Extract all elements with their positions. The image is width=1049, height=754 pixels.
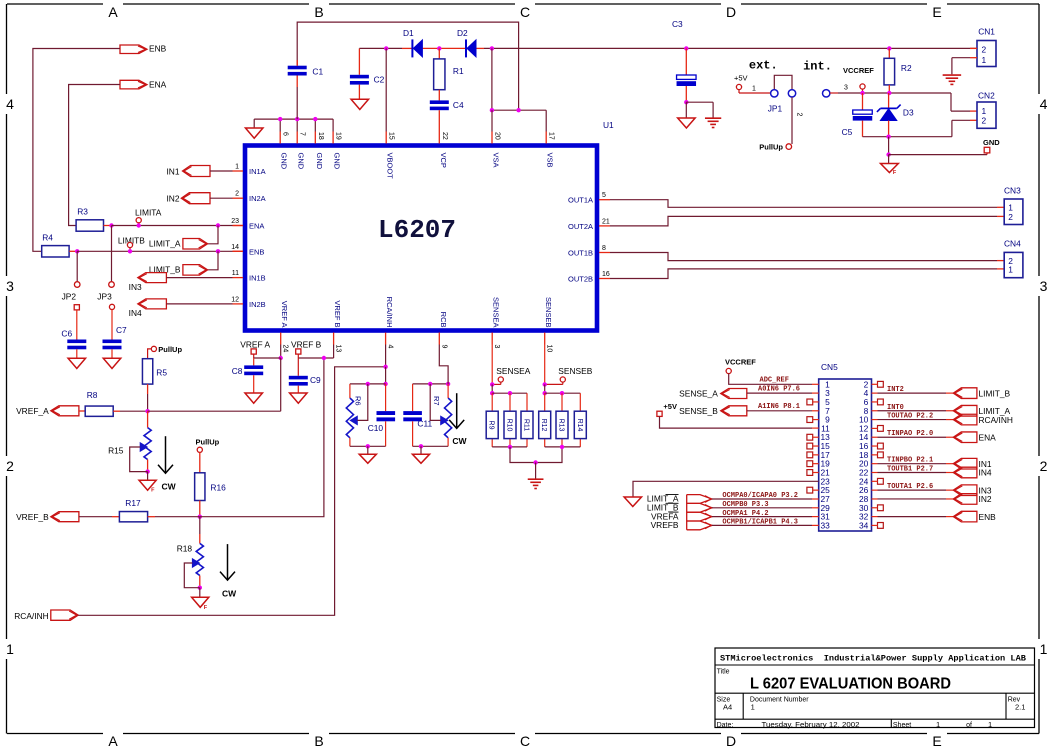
svg-text:ENB: ENB	[249, 247, 264, 256]
svg-text:LIMIT_B: LIMIT_B	[979, 388, 1011, 398]
svg-text:IN4: IN4	[979, 468, 992, 478]
svg-text:IN1A: IN1A	[249, 167, 266, 176]
svg-text:CW: CW	[162, 482, 177, 492]
svg-text:RCA/INH: RCA/INH	[14, 611, 48, 621]
svg-text:B: B	[314, 4, 323, 20]
svg-text:3: 3	[1040, 278, 1048, 294]
svg-text:VCCREF: VCCREF	[843, 66, 874, 75]
svg-text:2: 2	[6, 458, 14, 474]
svg-text:int.: int.	[803, 60, 832, 74]
svg-text:CN5: CN5	[821, 362, 838, 372]
svg-text:C1: C1	[312, 67, 323, 77]
svg-text:IN1B: IN1B	[249, 274, 266, 283]
svg-text:OCMPB0 P3.3: OCMPB0 P3.3	[722, 501, 768, 509]
svg-text:VREF_A: VREF_A	[16, 406, 49, 416]
svg-text:INT2: INT2	[887, 386, 904, 394]
svg-text:23: 23	[231, 218, 239, 225]
svg-text:16: 16	[602, 271, 610, 278]
svg-text:OUT2B: OUT2B	[568, 275, 593, 284]
svg-text:JP3: JP3	[97, 292, 112, 302]
svg-text:A4: A4	[723, 703, 732, 712]
svg-text:2: 2	[1008, 212, 1013, 222]
svg-text:R1: R1	[453, 66, 464, 76]
svg-text:CW: CW	[452, 436, 467, 446]
svg-text:VSA: VSA	[492, 153, 501, 168]
svg-text:R14: R14	[576, 419, 583, 432]
svg-text:OUT1A: OUT1A	[568, 196, 593, 205]
svg-text:2: 2	[982, 116, 987, 126]
svg-text:VCCREF: VCCREF	[725, 358, 756, 367]
svg-text:OCMPA1 P4.2: OCMPA1 P4.2	[722, 510, 768, 518]
svg-text:1: 1	[982, 106, 987, 116]
svg-text:Tuesday, February 12, 2002: Tuesday, February 12, 2002	[762, 720, 860, 729]
svg-text:34: 34	[859, 520, 869, 530]
svg-text:IN2: IN2	[166, 194, 179, 204]
svg-text:Document Number: Document Number	[750, 697, 809, 704]
svg-text:10: 10	[546, 345, 553, 353]
svg-text:A: A	[108, 4, 118, 20]
svg-text:1: 1	[235, 164, 239, 171]
svg-text:TOUTAO P2.2: TOUTAO P2.2	[887, 413, 933, 421]
svg-text:IN1: IN1	[166, 167, 179, 177]
svg-text:CN2: CN2	[978, 91, 995, 101]
svg-text:C4: C4	[453, 100, 464, 110]
svg-text:ENA: ENA	[979, 432, 997, 442]
svg-text:22: 22	[441, 132, 448, 140]
svg-text:STMicroelectronics Industrial: STMicroelectronics Industrial&Power Supp…	[720, 654, 1027, 664]
svg-text:3: 3	[844, 85, 848, 92]
svg-text:U1: U1	[603, 120, 614, 130]
svg-text:L6207: L6207	[378, 215, 456, 245]
svg-text:CN1: CN1	[978, 27, 995, 37]
svg-text:SENSE_A: SENSE_A	[679, 389, 718, 399]
svg-text:1: 1	[6, 641, 14, 657]
svg-text:R6: R6	[354, 396, 363, 406]
svg-text:SENSE_B: SENSE_B	[679, 406, 718, 416]
svg-text:R18: R18	[177, 544, 193, 554]
svg-text:D: D	[726, 733, 736, 749]
svg-text:1: 1	[1008, 265, 1013, 275]
svg-text:E: E	[932, 4, 941, 20]
svg-text:C9: C9	[310, 375, 321, 385]
svg-text:VCP: VCP	[439, 153, 448, 168]
svg-text:VREF A: VREF A	[240, 339, 270, 349]
svg-text:SENSEA: SENSEA	[492, 297, 501, 327]
svg-text:3: 3	[493, 345, 500, 349]
svg-text:TOUTA1 P2.6: TOUTA1 P2.6	[887, 483, 933, 491]
svg-text:1: 1	[752, 86, 756, 93]
svg-text:17: 17	[548, 132, 555, 140]
svg-text:VSB: VSB	[546, 153, 555, 168]
svg-text:2: 2	[1040, 458, 1048, 474]
svg-text:D2: D2	[457, 28, 468, 38]
svg-text:IN3: IN3	[129, 282, 142, 292]
svg-text:A1IN6 P8.1: A1IN6 P8.1	[758, 403, 800, 411]
svg-text:+5V: +5V	[663, 402, 677, 411]
svg-text:GND: GND	[297, 153, 306, 170]
svg-text:LIMIT_A: LIMIT_A	[149, 239, 181, 249]
svg-text:PullUp: PullUp	[759, 143, 783, 152]
svg-text:OCMPA0/ICAPA0 P3.2: OCMPA0/ICAPA0 P3.2	[722, 492, 798, 500]
svg-text:4: 4	[1040, 96, 1048, 112]
svg-text:GND: GND	[315, 153, 324, 170]
svg-text:C5: C5	[842, 127, 853, 137]
svg-text:5: 5	[602, 192, 606, 199]
svg-text:IN2A: IN2A	[249, 194, 266, 203]
svg-text:C7: C7	[116, 325, 127, 335]
svg-text:ENB: ENB	[979, 512, 997, 522]
svg-text:OUT1B: OUT1B	[568, 249, 593, 258]
svg-text:CW: CW	[222, 589, 237, 599]
svg-text:9: 9	[440, 345, 447, 349]
svg-text:C2: C2	[374, 75, 385, 85]
svg-text:D: D	[726, 4, 736, 20]
svg-text:24: 24	[282, 345, 289, 353]
svg-text:4: 4	[387, 345, 394, 349]
svg-text:PullUp: PullUp	[196, 437, 220, 446]
svg-text:20: 20	[494, 132, 501, 140]
svg-text:VREF A: VREF A	[280, 301, 289, 328]
svg-text:R5: R5	[156, 368, 167, 378]
svg-text:L 6207 EVALUATION BOARD: L 6207 EVALUATION BOARD	[750, 676, 951, 693]
svg-text:R2: R2	[901, 63, 912, 73]
svg-text:IN2B: IN2B	[249, 300, 266, 309]
svg-text:6: 6	[282, 132, 289, 136]
svg-text:IN2: IN2	[979, 494, 992, 504]
svg-text:A: A	[108, 733, 118, 749]
svg-text:GND: GND	[983, 138, 1000, 147]
svg-text:OCMPB1/ICAPB1 P4.3: OCMPB1/ICAPB1 P4.3	[722, 519, 798, 527]
svg-text:2: 2	[235, 191, 239, 198]
svg-text:19: 19	[335, 132, 342, 140]
svg-text:7: 7	[299, 132, 306, 136]
svg-text:1: 1	[988, 720, 992, 729]
svg-text:of: of	[966, 722, 972, 729]
svg-text:1: 1	[936, 720, 940, 729]
svg-text:R15: R15	[108, 446, 124, 456]
svg-text:B: B	[314, 733, 323, 749]
svg-text:TOUTB1 P2.7: TOUTB1 P2.7	[887, 466, 933, 474]
svg-text:8: 8	[602, 245, 606, 252]
svg-text:VREF B: VREF B	[291, 339, 322, 349]
svg-text:Title: Title	[717, 668, 730, 675]
svg-text:D1: D1	[403, 28, 414, 38]
svg-text:CN4: CN4	[1004, 239, 1021, 249]
svg-text:C10: C10	[368, 423, 384, 433]
svg-text:C8: C8	[232, 366, 243, 376]
svg-text:Sheet: Sheet	[893, 722, 911, 729]
svg-text:CN3: CN3	[1004, 186, 1021, 196]
svg-text:11: 11	[232, 270, 239, 277]
svg-text:R13: R13	[558, 419, 565, 432]
svg-text:4: 4	[6, 96, 14, 112]
svg-text:R3: R3	[77, 207, 88, 217]
svg-text:TINPBO P2.1: TINPBO P2.1	[887, 457, 933, 465]
svg-text:R4: R4	[42, 233, 53, 243]
svg-text:12: 12	[231, 296, 239, 303]
svg-text:RCB: RCB	[439, 312, 448, 328]
svg-text:14: 14	[231, 244, 239, 251]
svg-text:1: 1	[751, 703, 755, 712]
svg-text:SENSEA: SENSEA	[496, 366, 530, 376]
svg-text:1: 1	[1040, 641, 1048, 657]
svg-text:C: C	[520, 4, 530, 20]
svg-text:GND: GND	[333, 153, 342, 170]
svg-text:18: 18	[317, 132, 324, 140]
svg-text:R9: R9	[488, 421, 495, 430]
svg-text:PullUp: PullUp	[158, 345, 182, 354]
svg-text:1: 1	[982, 55, 987, 65]
svg-text:13: 13	[335, 345, 342, 353]
svg-text:+5V: +5V	[734, 74, 748, 83]
svg-text:A0IN6 P7.6: A0IN6 P7.6	[758, 386, 800, 394]
svg-text:ext.: ext.	[749, 59, 778, 73]
svg-text:D3: D3	[903, 108, 914, 118]
svg-text:IN4: IN4	[129, 308, 142, 318]
svg-text:JP2: JP2	[62, 292, 77, 302]
svg-text:VBOOT: VBOOT	[386, 153, 395, 180]
svg-text:RCA/INH: RCA/INH	[385, 297, 394, 328]
svg-text:R16: R16	[210, 483, 226, 493]
svg-text:R10: R10	[506, 419, 513, 432]
svg-text:E: E	[932, 733, 941, 749]
svg-text:33: 33	[820, 520, 830, 530]
svg-text:OUT2A: OUT2A	[568, 222, 593, 231]
svg-text:ENA: ENA	[149, 80, 167, 90]
svg-text:LIMITA: LIMITA	[135, 208, 162, 218]
svg-text:2: 2	[982, 44, 987, 54]
svg-text:3: 3	[6, 278, 14, 294]
svg-text:Date:: Date:	[717, 722, 734, 729]
svg-text:SENSEB: SENSEB	[558, 366, 592, 376]
svg-text:R8: R8	[87, 390, 98, 400]
svg-text:ENA: ENA	[249, 222, 264, 231]
svg-text:RCA/INH: RCA/INH	[979, 415, 1013, 425]
svg-text:ADC_REF: ADC_REF	[760, 377, 789, 385]
svg-text:VREF_B: VREF_B	[16, 512, 49, 522]
svg-text:2: 2	[796, 113, 803, 117]
svg-text:R12: R12	[540, 419, 547, 432]
svg-text:R7: R7	[432, 396, 441, 406]
svg-text:ENB: ENB	[149, 44, 167, 54]
svg-text:GND: GND	[280, 153, 289, 170]
svg-text:SENSEB: SENSEB	[544, 297, 553, 327]
svg-text:C: C	[520, 733, 530, 749]
svg-text:R17: R17	[125, 498, 141, 508]
svg-text:INT0: INT0	[887, 404, 904, 412]
svg-text:VREFB: VREFB	[651, 520, 679, 530]
svg-text:C3: C3	[672, 19, 683, 29]
svg-text:VREF B: VREF B	[333, 300, 342, 327]
svg-text:JP1: JP1	[768, 104, 783, 114]
svg-text:C6: C6	[61, 329, 72, 339]
svg-text:TINPAO P2.0: TINPAO P2.0	[887, 430, 933, 438]
svg-text:R11: R11	[523, 419, 530, 431]
svg-text:15: 15	[388, 132, 395, 140]
svg-text:21: 21	[602, 218, 610, 225]
svg-text:2.1: 2.1	[1015, 703, 1025, 712]
